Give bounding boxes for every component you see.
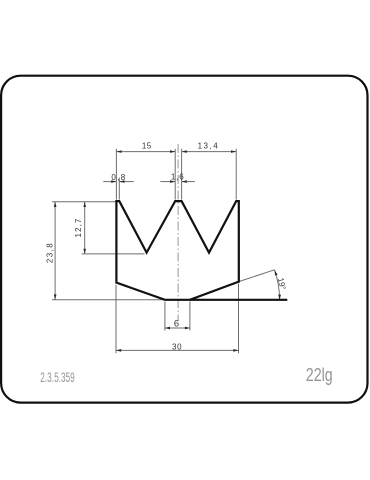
svg-text:23,8: 23,8 [45, 242, 54, 263]
svg-text:6: 6 [174, 318, 179, 328]
svg-text:19°: 19° [276, 277, 287, 291]
svg-text:30: 30 [172, 343, 182, 352]
svg-text:13,4: 13,4 [198, 142, 220, 151]
svg-text:15: 15 [142, 142, 152, 151]
svg-text:1,6: 1,6 [171, 173, 185, 182]
svg-text:22lg: 22lg [306, 365, 333, 385]
svg-text:0,8: 0,8 [111, 173, 126, 182]
svg-text:2.3.5.359: 2.3.5.359 [40, 371, 74, 386]
svg-text:12,7: 12,7 [74, 218, 83, 238]
